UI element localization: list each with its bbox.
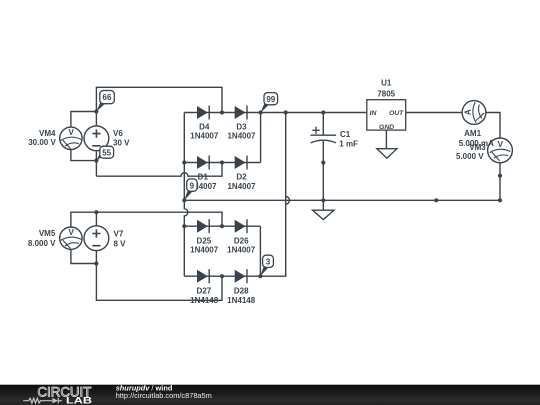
svg-text:VM5: VM5 xyxy=(39,229,56,238)
svg-text:GND: GND xyxy=(379,124,394,131)
svg-text:http://circuitlab.com/c878a5m: http://circuitlab.com/c878a5m xyxy=(116,391,212,400)
svg-text:30.00 V: 30.00 V xyxy=(28,138,56,147)
diode D25 xyxy=(197,219,209,233)
node junction C1 top xyxy=(321,110,325,114)
svg-text:D2: D2 xyxy=(236,173,247,182)
svg-text:V: V xyxy=(69,128,75,137)
svg-text:1N4007: 1N4007 xyxy=(227,246,256,255)
svg-text:VM4: VM4 xyxy=(39,129,56,138)
wire D1 D2 row xyxy=(184,162,260,164)
svg-text:AM1: AM1 xyxy=(464,129,481,138)
svg-text:U1: U1 xyxy=(381,79,392,88)
node junction 99 xyxy=(259,110,263,114)
svg-text:D27: D27 xyxy=(197,286,212,295)
regulator U1 xyxy=(367,100,406,131)
diode D28 xyxy=(235,269,247,283)
node junction 9 xyxy=(182,198,186,202)
svg-text:D1: D1 xyxy=(198,173,209,182)
wire C1 bottom branch xyxy=(322,141,324,201)
node junction VM5 bottom xyxy=(94,261,98,265)
node junction VM4 top xyxy=(94,109,98,113)
diode D27 xyxy=(197,269,209,283)
node junction rail right xyxy=(434,198,438,202)
wire VM5 bottom branch xyxy=(71,249,97,263)
node junction C1 mid xyxy=(321,161,325,165)
svg-text:IN: IN xyxy=(370,110,378,117)
svg-text:D28: D28 xyxy=(234,286,249,295)
svg-text:1N4148: 1N4148 xyxy=(190,296,219,305)
logo resistor diode squiggle xyxy=(23,398,62,404)
node junction D27-D28 xyxy=(220,274,224,278)
svg-text:D25: D25 xyxy=(197,236,212,245)
voltmeter VM3 xyxy=(488,138,513,163)
svg-text:V: V xyxy=(498,140,504,149)
node junction riser top xyxy=(284,110,288,114)
svg-text:7805: 7805 xyxy=(377,89,395,98)
node junction D25 anode xyxy=(182,224,186,228)
svg-text:1 mF: 1 mF xyxy=(339,139,358,148)
node flag 66 xyxy=(96,91,114,112)
svg-text:D26: D26 xyxy=(234,236,249,245)
wire D25 D26 row xyxy=(184,225,260,227)
svg-text:D4: D4 xyxy=(199,122,210,131)
node junction D4-D3 xyxy=(220,110,224,114)
svg-text:8 V: 8 V xyxy=(114,240,127,249)
node junction rail ground xyxy=(321,198,325,202)
wire D27 D28 row xyxy=(184,275,260,277)
svg-text:1N4007: 1N4007 xyxy=(190,132,219,141)
wire node 55 to D1-D2 junction with hop xyxy=(96,163,222,177)
svg-text:1N4007: 1N4007 xyxy=(227,182,256,191)
node junction D1-D2 xyxy=(220,160,224,164)
wire U1 gnd stem xyxy=(385,130,387,149)
diode D26 xyxy=(235,219,247,233)
svg-text:V6: V6 xyxy=(113,129,123,138)
svg-text:1N4148: 1N4148 xyxy=(227,296,256,305)
wire V6 bottom to node 55 xyxy=(95,151,97,176)
wire V7 top to bridge2 xyxy=(96,212,222,226)
svg-text:8.000 V: 8.000 V xyxy=(28,239,56,248)
svg-text:66: 66 xyxy=(103,93,112,102)
wire D4 D3 row xyxy=(184,112,260,114)
svg-text:D3: D3 xyxy=(236,122,247,131)
node flag 55 xyxy=(96,146,113,161)
svg-text:V7: V7 xyxy=(114,230,124,239)
svg-text:C1: C1 xyxy=(340,130,351,139)
source V6 xyxy=(84,126,109,151)
voltmeter VM4 xyxy=(60,127,82,149)
wire bridge1 left vertical with hop at lower wire xyxy=(184,113,188,277)
wire U1 out to AM1 xyxy=(406,112,463,114)
svg-text:V: V xyxy=(69,228,75,237)
wire D2 output up to node 99 xyxy=(260,113,262,163)
svg-text:VM3: VM3 xyxy=(469,143,486,152)
source V7 xyxy=(84,226,109,251)
node junction VM4 bottom xyxy=(94,159,98,163)
svg-text:1N4007: 1N4007 xyxy=(227,132,256,141)
node junction VM3 bottom xyxy=(498,174,502,178)
wire VM5 top branch xyxy=(71,212,97,227)
wire D26 output down xyxy=(259,226,261,276)
node junction VM5 top xyxy=(94,210,98,214)
wire V7 bottom loop xyxy=(96,251,222,301)
svg-text:99: 99 xyxy=(266,95,275,104)
wire top rail right to U1 xyxy=(261,112,367,114)
svg-text:OUT: OUT xyxy=(389,110,404,117)
diode D4 xyxy=(197,106,209,120)
svg-text:30 V: 30 V xyxy=(113,139,130,148)
footer bar xyxy=(0,385,540,405)
svg-text:3: 3 xyxy=(266,258,271,267)
svg-text:5.000 V: 5.000 V xyxy=(456,152,484,161)
wire AM1 to VM3 xyxy=(486,113,500,139)
wire hop arc at rail crossing xyxy=(286,197,290,205)
node junction D25-D26 xyxy=(220,224,224,228)
node flag 9 xyxy=(184,179,197,201)
node junction D1 anode xyxy=(182,160,186,164)
ammeter AM1 xyxy=(462,101,486,125)
svg-text:1N4007: 1N4007 xyxy=(190,246,219,255)
node junction rail corner xyxy=(498,198,502,202)
diode D2 xyxy=(235,156,247,170)
wire VM4 top branch xyxy=(71,112,97,128)
ground U1 xyxy=(377,149,397,159)
capacitor C1 xyxy=(311,127,337,143)
wire top rail node 66 xyxy=(96,87,222,126)
node junction 3 xyxy=(258,274,262,278)
node flag 99 xyxy=(260,93,277,113)
svg-text:A: A xyxy=(464,109,473,115)
voltmeter VM5 xyxy=(60,227,82,249)
wire VM4 bottom branch xyxy=(71,150,97,161)
wire VM3 bottom to rail xyxy=(499,163,501,201)
wire bottom rail node 9 xyxy=(184,199,500,201)
diode D1 xyxy=(197,156,209,170)
svg-text:55: 55 xyxy=(102,148,111,157)
svg-text:LAB: LAB xyxy=(66,395,92,405)
svg-text:9: 9 xyxy=(190,181,195,190)
diode D3 xyxy=(235,106,247,120)
ground rail xyxy=(313,200,334,219)
node flag 3 xyxy=(260,255,273,276)
wire C1 top branch xyxy=(322,113,324,136)
wire node 3 riser xyxy=(260,113,285,277)
